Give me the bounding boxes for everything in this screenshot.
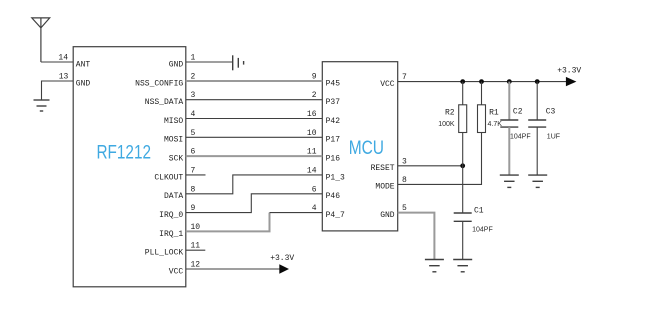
- svg-text:4: 4: [191, 110, 196, 119]
- wire IRQ_0 pin9 to P46: [186, 194, 322, 213]
- svg-text:RESET: RESET: [371, 164, 395, 173]
- svg-text:1: 1: [191, 54, 196, 63]
- svg-text:CLKOUT: CLKOUT: [154, 173, 183, 182]
- svg-text:C1: C1: [474, 207, 484, 216]
- junction dot at R2: [460, 79, 465, 84]
- wire MISO pin4 to P42: [186, 118, 322, 120]
- svg-text:DATA: DATA: [164, 192, 183, 201]
- wire P4_7 segment: [270, 212, 323, 214]
- svg-text:GND: GND: [380, 211, 395, 220]
- wire NSS_CONFIG pin2 to P45: [186, 80, 322, 82]
- svg-text:6: 6: [191, 148, 196, 157]
- svg-text:P17: P17: [326, 136, 341, 145]
- power arrow +3.3V (right): [566, 77, 577, 86]
- capacitor C2: [508, 82, 510, 120]
- svg-text:VCC: VCC: [380, 80, 395, 89]
- svg-text:P16: P16: [326, 155, 341, 164]
- wire MODE pin8: [398, 133, 482, 185]
- wire NSS_DATA pin3 to P37: [186, 99, 322, 101]
- svg-text:P45: P45: [326, 79, 341, 88]
- IC box RF1212: [73, 47, 186, 287]
- svg-text:ANT: ANT: [76, 60, 91, 69]
- wire CLKOUT pin7 stub: [186, 174, 206, 176]
- svg-text:MCU: MCU: [349, 138, 384, 159]
- svg-text:IRQ_1: IRQ_1: [159, 230, 183, 239]
- svg-text:100K: 100K: [438, 121, 455, 128]
- svg-text:2: 2: [312, 91, 317, 100]
- svg-text:9: 9: [312, 73, 317, 82]
- svg-text:P46: P46: [326, 192, 341, 201]
- IC box MCU: [322, 62, 397, 231]
- wire GND pin5: [398, 213, 435, 260]
- svg-text:MODE: MODE: [375, 183, 394, 192]
- ground (sideways, pin1): [233, 55, 244, 70]
- svg-text:+3.3V: +3.3V: [557, 67, 581, 76]
- svg-text:8: 8: [191, 185, 196, 194]
- svg-text:MOSI: MOSI: [164, 136, 183, 145]
- wire ANT pin14: [41, 61, 73, 63]
- wire SCK pin6 to P16: [186, 155, 322, 157]
- wire VCC pin7 rail: [398, 81, 567, 83]
- svg-text:8: 8: [402, 176, 407, 185]
- capacitor C1: [454, 212, 472, 214]
- svg-text:P4_7: P4_7: [326, 211, 345, 220]
- wire PLL_LOCK pin11 stub: [186, 249, 206, 251]
- wire VCC pin12 to +3.3V arrow: [186, 268, 280, 270]
- svg-text:R1: R1: [489, 108, 499, 117]
- svg-text:IRQ_0: IRQ_0: [159, 211, 183, 220]
- svg-text:6: 6: [312, 185, 317, 194]
- antenna: [32, 18, 50, 62]
- svg-text:4.7K: 4.7K: [488, 121, 503, 128]
- svg-text:GND: GND: [76, 79, 91, 88]
- svg-text:P42: P42: [326, 117, 341, 126]
- svg-text:P37: P37: [326, 98, 341, 107]
- svg-text:7: 7: [402, 73, 407, 82]
- svg-text:3: 3: [402, 157, 407, 166]
- svg-text:11: 11: [307, 148, 317, 157]
- svg-text:5: 5: [402, 204, 407, 213]
- svg-text:14: 14: [58, 54, 68, 63]
- wire GND pin1: [186, 61, 233, 63]
- svg-text:12: 12: [191, 261, 201, 270]
- junction dot at C2: [507, 79, 512, 84]
- power arrow +3.3V (left): [279, 264, 289, 273]
- wire MOSI pin5 to P17: [186, 136, 322, 138]
- wire DATA pin8 to P1_3: [186, 175, 322, 194]
- capacitor C3: [536, 82, 538, 120]
- svg-text:NSS_DATA: NSS_DATA: [145, 98, 184, 107]
- svg-text:R2: R2: [445, 108, 455, 117]
- svg-text:9: 9: [191, 204, 196, 213]
- svg-text:11: 11: [191, 242, 201, 251]
- svg-text:10: 10: [307, 129, 317, 138]
- svg-text:4: 4: [312, 204, 317, 213]
- svg-text:13: 13: [59, 73, 69, 82]
- resistor R1: [481, 82, 483, 105]
- svg-text:MISO: MISO: [164, 117, 183, 126]
- svg-text:10: 10: [191, 223, 201, 232]
- wire RESET pin3: [398, 165, 463, 167]
- ground (below C1): [453, 260, 472, 272]
- svg-text:5: 5: [191, 129, 196, 138]
- svg-text:3: 3: [191, 91, 196, 100]
- ground (below C3): [528, 175, 547, 187]
- junction dot at R1: [479, 79, 484, 84]
- svg-text:14: 14: [307, 166, 317, 175]
- svg-text:GND: GND: [169, 60, 184, 69]
- ground (below GND pin5): [425, 260, 444, 272]
- svg-text:104PF: 104PF: [472, 226, 493, 233]
- svg-text:SCK: SCK: [169, 155, 184, 164]
- svg-text:104PF: 104PF: [510, 133, 531, 140]
- svg-text:1UF: 1UF: [547, 133, 560, 140]
- junction dot RESET/R2: [460, 163, 465, 168]
- ground (below C2): [500, 175, 519, 187]
- svg-text:NSS_CONFIG: NSS_CONFIG: [135, 79, 183, 88]
- svg-text:7: 7: [191, 166, 196, 175]
- svg-text:16: 16: [307, 110, 317, 119]
- svg-text:P1_3: P1_3: [326, 173, 345, 182]
- svg-text:+3.3V: +3.3V: [270, 254, 294, 263]
- svg-text:VCC: VCC: [169, 267, 184, 276]
- wire R2 bottom to C1: [462, 166, 464, 213]
- resistor R2: [462, 82, 464, 105]
- junction dot at C3: [535, 79, 540, 84]
- svg-text:2: 2: [191, 73, 196, 82]
- svg-text:C2: C2: [513, 108, 523, 117]
- ground (left): [34, 100, 50, 111]
- svg-text:C3: C3: [546, 108, 556, 117]
- svg-text:RF1212: RF1212: [97, 143, 152, 164]
- wire IRQ_1 pin10 to P4_7: [186, 213, 270, 232]
- svg-text:PLL_LOCK: PLL_LOCK: [145, 249, 184, 258]
- wire GND pin13: [42, 81, 74, 100]
